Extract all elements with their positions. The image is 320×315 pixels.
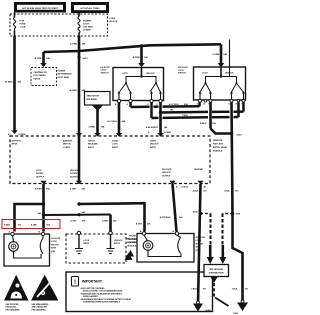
svg-text:INPUT: INPUT (84, 243, 91, 245)
svg-text:OUTPUT: OUTPUT (36, 176, 45, 178)
svg-text:A LT BLU: A LT BLU (107, 120, 117, 123)
svg-text:RH DOOR: RH DOOR (178, 67, 188, 69)
svg-text:INPUT: INPUT (150, 147, 157, 149)
svg-text:LOCK: LOCK (51, 241, 57, 243)
svg-text:A TAN: A TAN (102, 220, 108, 223)
svg-text:DOORS: DOORS (36, 173, 44, 175)
svg-text:LOCK: LOCK (36, 170, 42, 172)
svg-text:OUTPUT: OUTPUT (70, 176, 79, 178)
svg-text:LOADS: LOADS (63, 146, 71, 149)
svg-text:C2 B14: C2 B14 (181, 186, 189, 189)
svg-text:SEE HATCH: SEE HATCH (87, 95, 100, 98)
svg-text:S213: S213 (83, 58, 89, 60)
svg-text:A GRY: A GRY (70, 188, 77, 191)
svg-text:UNLOCK: UNLOCK (150, 144, 159, 146)
svg-text:HATCH: HATCH (88, 140, 95, 143)
svg-text:LOCK: LOCK (178, 70, 184, 72)
svg-text:RELEASE: RELEASE (88, 143, 98, 146)
svg-text:INFORMATION: INFORMATION (58, 73, 73, 76)
svg-text:IMPORTANT:: IMPORTANT: (82, 280, 103, 284)
svg-text:!: ! (74, 280, 76, 286)
svg-text:INPUT: INPUT (88, 147, 95, 149)
svg-text:AN ELECTRONIC CIRCUIT BREAKER: AN ELECTRONIC CIRCUIT BREAKER (ECB) (83, 290, 123, 293)
svg-text:3 BRN: 3 BRN (88, 127, 95, 129)
svg-text:RH DOOR: RH DOOR (162, 169, 172, 171)
svg-text:A GRY: A GRY (136, 223, 143, 226)
svg-text:LOCK: LOCK (202, 73, 208, 75)
svg-text:A ORN: A ORN (70, 89, 77, 92)
svg-text:30 AMP: 30 AMP (83, 29, 91, 32)
svg-text:ENTRY (RKE): ENTRY (RKE) (213, 147, 227, 149)
svg-text:UNLOCK: UNLOCK (162, 172, 171, 174)
svg-text:C2 B94: C2 B94 (164, 131, 172, 134)
svg-text:GROUND: GROUND (194, 169, 203, 171)
svg-text:SEE MEASURING: SEE MEASURING (32, 303, 49, 306)
svg-text:MODULE: MODULE (213, 151, 223, 153)
svg-text:PROCEDURES: PROCEDURES (32, 309, 47, 311)
svg-text:2 ORN: 2 ORN (212, 54, 219, 56)
svg-text:A BLK: A BLK (200, 122, 207, 125)
svg-text:LH DOOR: LH DOOR (51, 238, 61, 240)
svg-text:LOCK: LOCK (83, 24, 90, 26)
svg-text:HOT AT ALL TIMES: HOT AT ALL TIMES (81, 7, 101, 10)
svg-text:INPUT: INPUT (114, 243, 121, 245)
svg-text:MODULE: MODULE (127, 242, 136, 244)
svg-text:FOLLOWING: FOLLOWING (34, 75, 47, 77)
svg-text:IS REMOVED FROM MOTOR TERMINAL: IS REMOVED FROM MOTOR TERMINALS (83, 301, 121, 304)
svg-text:IGNITION: IGNITION (12, 141, 21, 143)
svg-text:KEYLESS: KEYLESS (213, 144, 224, 146)
svg-text:MOTOR: MOTOR (51, 244, 59, 246)
svg-text:SWITCH: SWITCH (101, 72, 109, 74)
svg-text:UNLOCK: UNLOCK (225, 73, 234, 75)
svg-text:G200: G200 (206, 310, 212, 312)
svg-text:PROCEDURES: PROCEDURES (6, 309, 21, 311)
svg-text:OUTPUT: OUTPUT (162, 175, 171, 177)
svg-text:SEE PROPER: SEE PROPER (6, 304, 20, 306)
svg-text:A GRY/BLK: A GRY/BLK (160, 216, 171, 219)
svg-text:20 RED: 20 RED (5, 82, 13, 84)
svg-text:A TAN: A TAN (35, 188, 42, 191)
svg-text:BATTERY: BATTERY (63, 140, 73, 143)
svg-text:A BLK: A BLK (192, 190, 199, 193)
svg-text:DISTRIBUTION: DISTRIBUTION (209, 273, 224, 275)
svg-text:LOCK: LOCK (84, 240, 90, 242)
svg-text:4 TAN: 4 TAN (31, 224, 37, 227)
svg-text:WITH: WITH (51, 248, 57, 250)
svg-text:(CB): (CB) (51, 251, 56, 253)
svg-text:C2 RKE: C2 RKE (18, 134, 26, 136)
svg-text:LOCK: LOCK (122, 73, 128, 75)
svg-text:3 BLK: 3 BLK (191, 289, 197, 291)
svg-text:AND HANDLING: AND HANDLING (32, 306, 48, 309)
svg-text:FUSE: FUSE (110, 18, 116, 20)
svg-text:A ORN: A ORN (133, 56, 140, 59)
svg-text:A GRY: A GRY (70, 220, 77, 223)
svg-text:SWITCH: SWITCH (178, 73, 186, 75)
svg-text:RELEASE: RELEASE (87, 98, 98, 101)
svg-text:UNLOCK: UNLOCK (114, 240, 123, 242)
svg-text:PARTS: PARTS (34, 77, 41, 80)
svg-text:CENTRAL OR: CENTRAL OR (34, 71, 48, 74)
svg-text:F.XX: F.XX (20, 21, 25, 23)
svg-text:DOOR: DOOR (112, 141, 119, 143)
svg-text:3 BLK: 3 BLK (232, 289, 238, 291)
svg-text:HANDLING: HANDLING (6, 306, 17, 309)
svg-text:UNLOCK: UNLOCK (70, 170, 79, 172)
svg-text:SEE GROUND: SEE GROUND (209, 269, 223, 271)
svg-text:DOORS: DOORS (70, 173, 78, 175)
svg-text:(LEFT SIDE): (LEFT SIDE) (58, 77, 70, 79)
svg-text:A ORN: A ORN (35, 57, 42, 60)
svg-text:1 BLK: 1 BLK (224, 191, 230, 193)
svg-text:4 RED: 4 RED (4, 224, 10, 227)
svg-text:TRUNK: TRUNK (129, 236, 137, 238)
svg-text:MODULE: MODULE (128, 245, 137, 247)
svg-text:LOCK: LOCK (112, 144, 118, 146)
svg-text:HOT IN RUN, BULB TEST OR START: HOT IN RUN, BULB TEST OR START (22, 7, 59, 10)
svg-text:FUSE: FUSE (20, 24, 26, 26)
svg-text:CKT BKR: CKT BKR (83, 27, 93, 29)
svg-text:A BLK/WHT: A BLK/WHT (146, 126, 159, 129)
svg-text:UNLOCK: UNLOCK (146, 73, 155, 75)
svg-text:BLOCK: BLOCK (110, 21, 118, 23)
svg-text:POWER: POWER (58, 71, 66, 73)
svg-text:1 10A: 1 10A (20, 26, 26, 29)
svg-text:LH DOOR: LH DOOR (101, 67, 111, 69)
svg-text:INPUT: INPUT (12, 144, 19, 146)
svg-text:WORK HARDER: WORK HARDER (83, 295, 98, 298)
svg-text:REMOTE: REMOTE (213, 140, 223, 142)
svg-text:RELEASE: RELEASE (127, 238, 137, 241)
svg-text:POWER: POWER (83, 21, 92, 23)
svg-text:A LT BLU: A LT BLU (169, 103, 179, 106)
svg-text:A ORN: A ORN (70, 43, 77, 46)
svg-text:INPUT: INPUT (112, 147, 119, 149)
svg-text:S210: S210 (237, 135, 243, 137)
svg-text:MOTOR: MOTOR (63, 144, 71, 146)
svg-text:DOOR: DOOR (150, 141, 157, 143)
svg-text:LOCK: LOCK (101, 70, 107, 72)
